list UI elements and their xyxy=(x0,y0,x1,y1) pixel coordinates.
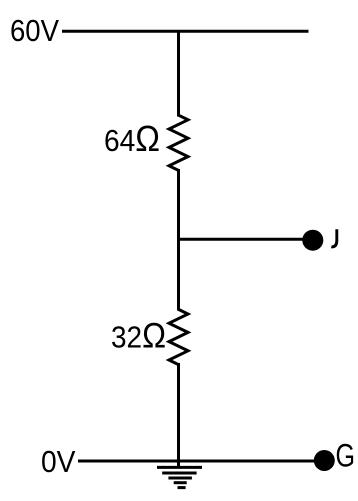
wire: R1 bottom through junction to resistor R2 xyxy=(177,169,180,311)
wire: junction to node J terminal xyxy=(177,238,307,241)
wire: 0V bottom rail xyxy=(78,460,318,463)
node J terminal dot xyxy=(302,230,323,251)
wire: 60V top rail xyxy=(62,30,309,33)
svg-text:G: G xyxy=(336,438,356,474)
svg-text:64Ω: 64Ω xyxy=(104,118,160,159)
svg-text:32Ω: 32Ω xyxy=(111,316,166,356)
node label J xyxy=(331,229,337,247)
wire: top rail down to resistor R1 xyxy=(177,30,180,117)
ground symbol xyxy=(157,467,202,487)
resistor R2 32Ω (zigzag) xyxy=(169,309,188,364)
wire: R2 bottom to ground rail xyxy=(177,363,180,467)
svg-text:0V: 0V xyxy=(41,444,76,479)
resistor R1 64Ω (zigzag) xyxy=(169,115,188,170)
node G terminal dot xyxy=(314,450,335,471)
svg-text:60V: 60V xyxy=(10,13,59,48)
